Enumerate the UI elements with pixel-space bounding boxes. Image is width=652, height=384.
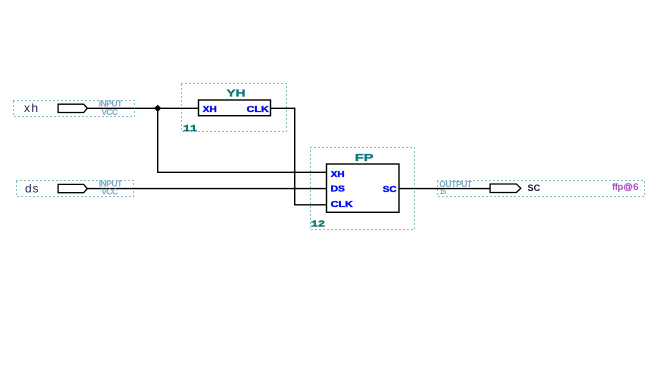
wire YH.CLK out	[271, 107, 295, 109]
wire YH.CLK down	[294, 108, 296, 205]
svg-text:FP: FP	[355, 153, 374, 164]
svg-text:xh: xh	[24, 101, 38, 115]
block FP body	[327, 164, 400, 212]
output pin sc selection box	[438, 181, 645, 197]
svg-text:12: 12	[311, 220, 325, 230]
node junction	[154, 105, 161, 112]
wire to FP.CLK	[294, 204, 327, 206]
input pin xh selection box	[14, 101, 135, 117]
svg-text:CLK: CLK	[331, 200, 354, 209]
wire xh pin to YH.XH	[87, 107, 198, 109]
svg-text:DS: DS	[331, 185, 346, 194]
input pin ds symbol	[58, 184, 87, 192]
wire junction down	[157, 108, 159, 172]
svg-text:VCC: VCC	[101, 107, 118, 117]
wire ds pin to FP.DS	[87, 188, 326, 190]
wire junction to FP.XH	[157, 171, 327, 173]
block FP selection box	[311, 148, 415, 230]
svg-text:VCC: VCC	[101, 187, 118, 197]
svg-text:CLK: CLK	[247, 105, 270, 114]
output pin sc symbol	[490, 184, 521, 193]
block YH body	[199, 100, 271, 116]
input pin xh symbol	[58, 104, 87, 112]
block YH selection box	[182, 84, 287, 132]
svg-text:15: 15	[439, 189, 446, 196]
svg-text:YH: YH	[227, 89, 246, 100]
svg-text:SC: SC	[528, 183, 541, 193]
wire FP.SC to output pin sc	[399, 188, 491, 190]
svg-text:ffp@6: ffp@6	[613, 182, 639, 193]
svg-text:XH: XH	[331, 170, 345, 179]
svg-text:ds: ds	[25, 181, 39, 195]
svg-text:XH: XH	[203, 105, 217, 114]
input pin ds selection box	[17, 181, 134, 197]
svg-text:SC: SC	[383, 185, 397, 194]
svg-text:11: 11	[183, 124, 198, 134]
svg-text:OUTPUT: OUTPUT	[439, 179, 473, 189]
